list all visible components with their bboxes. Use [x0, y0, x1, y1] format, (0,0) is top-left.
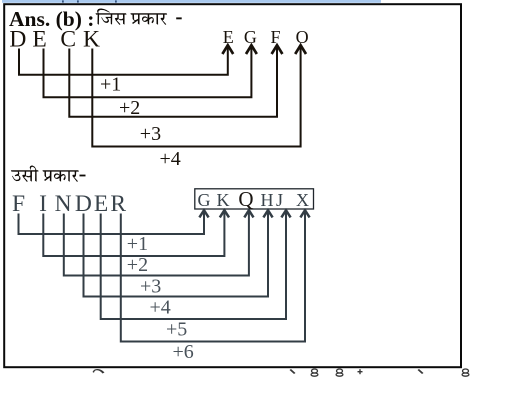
svg-text:E: E [32, 26, 46, 52]
svg-text:+6: +6 [173, 341, 194, 363]
svg-text:H: H [261, 190, 274, 210]
svg-text:+3: +3 [140, 276, 161, 298]
svg-text:D: D [75, 191, 92, 217]
svg-text:F: F [270, 27, 280, 47]
svg-text:F: F [12, 191, 25, 217]
svg-text:D: D [9, 26, 26, 52]
svg-text:Q: Q [238, 187, 253, 211]
svg-text:+2: +2 [119, 97, 140, 119]
svg-text:E: E [94, 191, 108, 217]
svg-text:O: O [296, 27, 309, 47]
svg-text:I: I [39, 191, 47, 217]
svg-text:+2: +2 [127, 254, 148, 276]
svg-text:N: N [55, 191, 72, 217]
svg-text:J: J [276, 190, 283, 210]
svg-text:C: C [60, 26, 76, 52]
svg-text:R: R [110, 191, 126, 217]
svg-text:X: X [296, 190, 309, 210]
svg-text:G: G [198, 190, 211, 210]
svg-text:G: G [244, 27, 257, 47]
svg-text:+1: +1 [100, 73, 121, 95]
svg-text:+1: +1 [127, 233, 148, 255]
svg-text:+4: +4 [160, 148, 181, 170]
svg-text:+5: +5 [166, 319, 187, 341]
svg-text:+4: +4 [150, 297, 171, 319]
svg-text:+3: +3 [140, 123, 161, 145]
svg-text:K: K [217, 190, 230, 210]
